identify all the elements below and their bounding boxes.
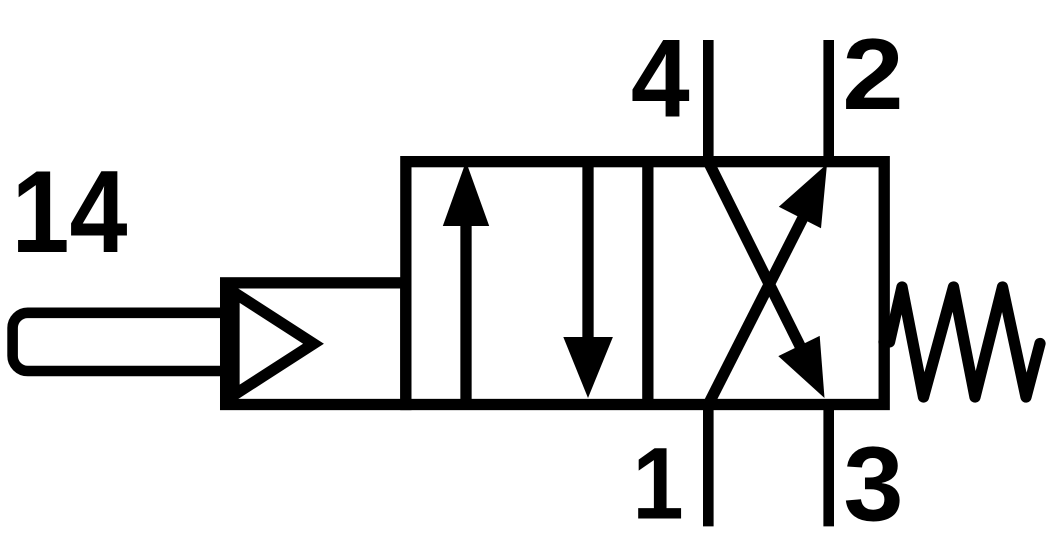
svg-text:4: 4	[631, 16, 690, 140]
svg-text:3: 3	[843, 424, 903, 543]
svg-text:2: 2	[842, 18, 903, 131]
svg-text:14: 14	[11, 148, 127, 278]
svg-text:1: 1	[632, 426, 683, 541]
